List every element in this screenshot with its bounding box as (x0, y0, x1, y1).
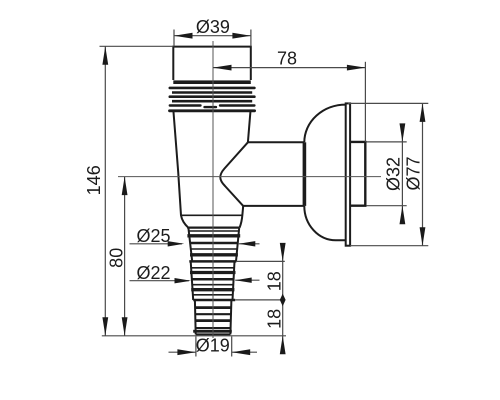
barb section Ø22 left edge (191, 261, 194, 300)
cup rib 1 (170, 87, 255, 90)
dim line 78 (213, 67, 365, 69)
arrow Ø19 left outside (177, 349, 196, 355)
ext line Ø77 top (348, 102, 428, 104)
cup rib 4 (172, 100, 252, 103)
barb step 1 (189, 260, 236, 263)
barb Ø25 rib bar e (190, 253, 238, 256)
junction notch (220, 142, 248, 206)
svg-text:80: 80 (106, 248, 126, 268)
ext line 18 upper (236, 260, 284, 262)
dim line 146 (104, 46, 106, 336)
arrow 78 left (213, 65, 232, 71)
arrow Ø77 top (420, 103, 426, 122)
pipe top edge (248, 141, 304, 143)
center line vertical (212, 41, 214, 338)
barb Ø22 rib line thin d (192, 284, 233, 286)
ext line Ø32 bottom (366, 205, 406, 207)
barb Ø22 rib bar e (191, 288, 234, 291)
barb bottom protruding bar (193, 330, 232, 333)
cup rib 5 segmented (170, 106, 255, 108)
dim line 18 (282, 250, 284, 353)
arrow 80 bottom (122, 317, 128, 336)
cup rib 6 bottom (170, 109, 255, 112)
barb bottom edge (196, 333, 231, 335)
barb section Ø22 right edge (233, 261, 235, 300)
barb Ø22 rib bar b (190, 271, 236, 274)
dome rim (346, 103, 350, 245)
barb step 2 (193, 299, 235, 302)
arrow Ø32 top (400, 123, 406, 141)
outlet stub Ø32 (350, 142, 365, 206)
arrow Ø25 leader (168, 241, 185, 246)
barb Ø19 rib line b (195, 313, 231, 315)
arrow 80 top (122, 177, 128, 196)
svg-text:146: 146 (84, 165, 104, 195)
barb Ø25 rib line thin d (191, 248, 237, 250)
collar line 2 (187, 227, 239, 229)
arrow Ø39 right (232, 33, 251, 39)
arrow Ø22 leader (175, 278, 192, 283)
pipe bottom edge (243, 205, 304, 207)
dim line Ø19 right tail (232, 351, 257, 353)
barb Ø25 rib bar b (187, 234, 240, 237)
body left edge (174, 112, 189, 228)
dome top arc (304, 105, 346, 143)
center line horizontal (118, 176, 381, 178)
barb Ø22 rib line thin f (193, 294, 233, 296)
leader Ø22 right tail (235, 279, 259, 281)
leader Ø25 right tail (239, 243, 260, 245)
svg-text:Ø39: Ø39 (196, 17, 230, 37)
barb Ø19 rib line d (196, 327, 231, 329)
cup rib 3 (170, 95, 255, 98)
leader Ø22 (130, 280, 190, 282)
ext line 146 top (100, 45, 174, 47)
arrow Ø19 right outside (232, 349, 251, 355)
ext line Ø39 right (250, 30, 252, 47)
arrow 146 bottom (102, 317, 108, 336)
svg-text:Ø19: Ø19 (196, 335, 230, 355)
arrow 146 top (102, 46, 108, 65)
svg-text:18: 18 (265, 309, 285, 329)
body right edge upper (248, 112, 251, 142)
barb Ø25 rib line thin a (189, 230, 239, 232)
body right edge lower (240, 206, 244, 228)
ext line Ø19 left (195, 337, 197, 357)
svg-text:Ø22: Ø22 (137, 263, 171, 283)
ext line Ø39 left (173, 30, 175, 47)
ext line Ø32 top (366, 141, 406, 143)
ext line 78 right (364, 62, 366, 142)
cup thick band (173, 80, 251, 84)
ext line Ø19 right (231, 337, 233, 357)
dim line Ø77 (422, 103, 424, 245)
svg-text:Ø32: Ø32 (384, 157, 404, 191)
ext line 18 middle (235, 299, 285, 301)
collar line 1 (181, 214, 242, 216)
arrow 18 middle diamond (280, 294, 286, 307)
arrow Ø32 bottom (400, 206, 406, 225)
barb Ø22 rib line thin a (191, 267, 234, 269)
svg-text:Ø77: Ø77 (403, 156, 423, 190)
dome bottom arc (304, 206, 345, 240)
barb Ø22 rib line c (192, 278, 234, 281)
barb section Ø19 right edge (230, 300, 231, 334)
barb section Ø19 left edge (194, 300, 197, 334)
svg-text:18: 18 (265, 271, 285, 291)
cup outline Ø39 top (173, 47, 251, 80)
arrow 78 right (347, 65, 366, 71)
dim line Ø19 left tail (169, 351, 196, 353)
barb section Ø25 left edge (188, 228, 192, 262)
dim line Ø32 (401, 126, 403, 221)
leader Ø25 (130, 243, 183, 245)
arrow Ø25 right (239, 241, 256, 246)
dome left thick edge (303, 142, 307, 206)
dim line 80 (124, 177, 126, 336)
arrow 18 top outside (280, 243, 286, 262)
cup rib 2 (172, 91, 252, 94)
arrow 18 bottom outside (280, 336, 286, 355)
barb Ø25 rib line c (190, 242, 238, 245)
ext line bottom shared (102, 335, 286, 337)
svg-text:78: 78 (277, 49, 297, 69)
dim line Ø39 (174, 35, 251, 37)
ext line Ø77 bottom (350, 245, 428, 247)
arrow Ø77 bottom (420, 227, 426, 246)
barb Ø19 rib line c (195, 319, 231, 322)
arrow Ø22 right (235, 278, 252, 283)
svg-text:Ø25: Ø25 (137, 226, 171, 246)
barb section Ø25 right edge (236, 228, 239, 262)
arrow Ø39 left (174, 33, 193, 39)
barb Ø19 rib line a (195, 306, 231, 309)
